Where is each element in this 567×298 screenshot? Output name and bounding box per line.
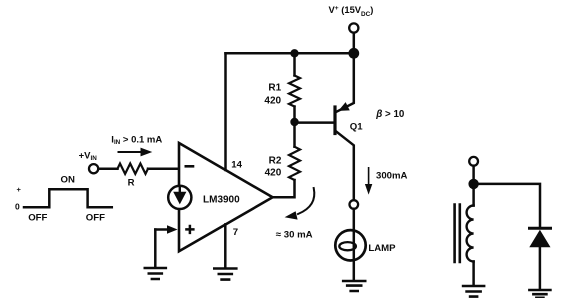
svg-text:β > 10: β > 10 (375, 109, 405, 120)
wire: terminal to junction (472, 166, 475, 179)
wire: junction to diode branch (474, 184, 540, 227)
svg-text:Q1: Q1 (350, 121, 363, 132)
wire: base node to R2 (293, 122, 296, 147)
lamp filament loop (339, 242, 356, 250)
diode D1 (529, 230, 550, 248)
ground (non-inverting input) (145, 268, 166, 279)
transistor Q1 emitter with arrow (336, 53, 354, 112)
ground (inductor) (463, 286, 484, 297)
svg-text:IIN > 0.1 mA: IIN > 0.1 mA (111, 134, 162, 146)
svg-text:LAMP: LAMP (368, 243, 396, 254)
ground (diode) (529, 290, 550, 298)
svg-text:+: + (17, 185, 22, 194)
svg-text:R2: R2 (269, 156, 282, 167)
svg-text:420: 420 (264, 95, 281, 106)
curved arrow 30 mA (298, 188, 314, 214)
svg-text:≈ 30 mA: ≈ 30 mA (276, 230, 313, 241)
wire: input terminal to resistor R (98, 167, 117, 170)
svg-text:420: 420 (265, 168, 282, 179)
pin 14 wire (V+ riser) (224, 53, 227, 170)
svg-text:0: 0 (15, 202, 20, 212)
svg-text:300mA: 300mA (376, 170, 408, 181)
transistor Q1 base bar (333, 107, 336, 134)
wire: diode to ground (539, 247, 542, 289)
current mirror source inside LM3900 (168, 186, 191, 209)
junction dot at R1 top (290, 49, 298, 57)
svg-text:14: 14 (231, 160, 242, 171)
wire: non-inverting input with arrowhead (155, 228, 168, 231)
wire: terminal to lamp and through lamp (353, 209, 356, 281)
svg-text:+VIN: +VIN (79, 151, 98, 163)
wire: resistor R to inverting input (148, 167, 178, 170)
lamp terminal open circle (350, 200, 359, 209)
wire: junction to inductor (472, 184, 475, 206)
resistor R1 420 (289, 76, 300, 107)
resistor R2 420 (289, 147, 300, 180)
transistor Q1 collector (336, 131, 354, 200)
lamp L1 circle (335, 230, 365, 260)
pin 7 wire (ground drop) (224, 224, 227, 268)
inductor L coil (467, 206, 474, 262)
V+ terminal open circle (349, 23, 358, 32)
wire: non-inverting input down to ground (154, 230, 157, 268)
diode D1 cathode bar (530, 227, 551, 230)
right circuit terminal open circle (469, 157, 478, 166)
input terminal +VIN open circle (89, 164, 98, 173)
svg-text:OFF: OFF (86, 213, 105, 224)
wire: base node to Q1 base (295, 121, 336, 124)
ground (pin 7) (214, 269, 236, 280)
resistor R (118, 164, 149, 174)
IIN current direction arrow (119, 151, 143, 153)
inductor core bars (455, 205, 460, 263)
svg-text:R1: R1 (268, 82, 281, 93)
300mA current arrow (368, 168, 370, 185)
wire: R2 to op-amp output (273, 180, 295, 197)
ground (lamp) (343, 281, 365, 291)
wire: V+ terminal drop (353, 33, 356, 54)
V+ supply rail wire (226, 52, 354, 55)
wire: rail to R1 (293, 53, 296, 75)
label plus input (185, 225, 194, 234)
junction dot right circuit (468, 179, 478, 189)
label minus input (185, 165, 195, 168)
op-amp U1 LM3900 triangle (179, 143, 273, 251)
svg-text:OFF: OFF (28, 213, 47, 224)
svg-text:LM3900: LM3900 (203, 195, 240, 206)
wire: R1 to base node (293, 107, 296, 123)
svg-text:ON: ON (61, 174, 75, 185)
wire: inductor to ground (472, 262, 475, 286)
svg-text:V+ (15VDC): V+ (15VDC) (329, 4, 374, 18)
svg-text:7: 7 (233, 227, 238, 238)
svg-text:R: R (128, 177, 135, 188)
junction dot at emitter rail (348, 48, 359, 59)
input waveform ON/OFF pulse (24, 189, 112, 207)
junction dot base node (290, 118, 298, 126)
